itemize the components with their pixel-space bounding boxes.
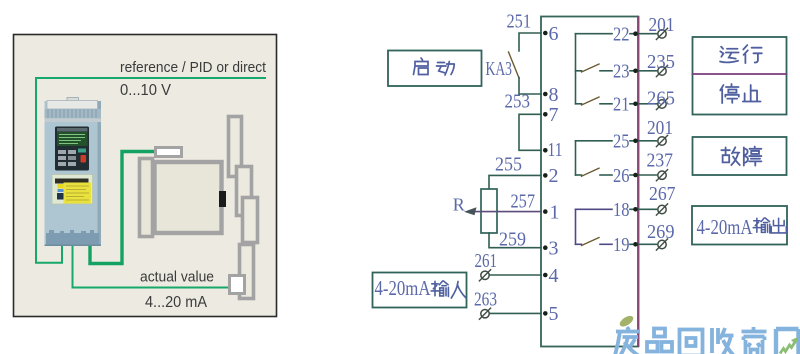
wiper arrowhead [464,207,477,215]
char chu (exit) [771,218,786,233]
char ting (stop-1) [720,84,739,103]
terminal circle 235 [656,65,667,76]
wire: 259 potentiometer bottom to terminal 3 [489,233,541,248]
drive: label icons [58,184,65,189]
wire: 255 terminal 2 to potentiometer top [489,175,541,189]
svg-text:8: 8 [549,84,559,106]
svg-text:237: 237 [647,150,674,172]
box: 4-20mA output [692,206,787,245]
svg-text:261: 261 [475,250,498,272]
pipe segment 4 [240,245,254,299]
contact 21 to terminal circle 265 [630,103,657,105]
wire: 257 wiper to terminal 1 [469,211,541,213]
terminal circle 267 [656,204,667,215]
wire number labels right [647,14,676,243]
terminal circle 269 [656,239,667,250]
svg-text:201: 201 [647,117,673,139]
svg-text:6: 6 [549,23,559,45]
char dong (move) [437,62,455,76]
wire: loop terminal 7 to 11 [519,114,541,150]
drive: fin band [45,109,102,118]
svg-text:25: 25 [613,131,630,153]
svg-text:22: 22 [613,24,630,46]
svg-text:251: 251 [507,11,532,33]
svg-text:2: 2 [549,165,559,187]
char yun (run) [720,47,739,63]
contact 21 switch [576,103,582,105]
svg-text:reference / PID or direct: reference / PID or direct [120,59,267,76]
potentiometer R body [481,189,497,233]
pipe segment 3 [243,198,258,243]
box: fault [693,137,787,175]
drive: control panel [55,127,89,171]
wire: 251 from start switch to terminal 6 [519,33,541,51]
char xing (go) [743,45,762,63]
pump: top connector [156,148,182,157]
wire: 261 to terminal 4 [490,274,541,276]
svg-text:23: 23 [613,61,630,83]
run/stop divider [693,73,787,75]
wire: 263 to terminal 5 [490,312,541,314]
drive: keypad buttons [58,150,66,154]
char ru (enter) [451,282,466,299]
drive: seam [45,118,102,122]
terminal circle 237 [656,170,667,181]
svg-text:263: 263 [474,289,497,311]
svg-text:265: 265 [647,88,675,110]
box: run/stop [693,37,787,115]
svg-text:26: 26 [613,165,630,187]
relay bracket group 2 [575,141,577,175]
wm char shang [742,327,767,354]
svg-text:7: 7 [549,104,559,126]
contact 22 to terminal circle 201 [630,33,657,35]
char qi (start) [414,58,429,75]
pump: main body [155,162,222,233]
contact 25 wire [576,140,613,142]
svg-text:3: 3 [549,238,559,260]
contact 23 switch [576,70,582,72]
svg-text:18: 18 [613,199,630,221]
svg-text:4...20 mA: 4...20 mA [145,294,208,311]
drive: label barcode [55,179,89,184]
drive: green display [57,132,88,146]
relay bracket group 1 [575,34,577,104]
WATERMARK [615,314,799,354]
drive: right shade [98,101,102,246]
svg-text:11: 11 [548,139,563,161]
contact 18 wire [576,208,613,210]
char gu (fault-1) [721,147,739,165]
wire: reference signal green loop [36,78,266,263]
svg-text:1: 1 [550,201,560,223]
box: 4-20mA input [373,273,467,308]
wm char hui [680,330,703,354]
wm char shou [712,328,735,354]
sensor box [230,276,245,294]
switch KA3 blade [509,52,520,78]
terminal circle 201a [656,28,667,39]
contact 22 wire [576,33,613,35]
wm char fei [615,327,641,354]
wire: 253 from switch to terminal 8 [519,78,541,95]
terminal numbers left bus [548,23,563,325]
svg-text:235: 235 [647,51,675,73]
panel frame [14,35,277,317]
svg-text:21: 21 [613,94,630,116]
svg-text:201: 201 [649,14,675,36]
svg-text:0...10 V: 0...10 V [120,82,172,99]
junction dots right bus [633,31,638,246]
svg-text:KA3: KA3 [486,58,513,80]
char shu (output box) [753,218,770,233]
svg-text:4-20mA: 4-20mA [375,276,432,300]
drive: bottom heatsink silhouette [46,233,99,246]
terminal circle 265 [656,98,667,109]
wire number labels left [474,11,535,311]
RIGHT-SCHEMATIC [373,11,788,347]
drive: warning label plate [52,175,93,205]
relay bracket group 3 [575,209,577,244]
wire: motor cable thick green [90,152,156,264]
box: start (qidong) [388,51,482,87]
drive: red stop button [81,155,87,163]
drive: panel top strip [57,128,88,132]
char zhang (fault-2) [744,147,762,166]
svg-text:4: 4 [549,265,559,287]
terminal circle 263 [479,308,490,319]
char shu (input box) [431,281,448,296]
char zhi (stop-2) [743,85,761,101]
drive: top cap [47,101,98,110]
svg-text:5: 5 [549,303,559,325]
svg-text:267: 267 [649,183,676,205]
svg-text:257: 257 [511,191,536,213]
terminal circle 261 [479,270,490,281]
pipe segment 2 [237,167,252,216]
VFD terminal block outline [541,17,638,347]
leaf decoration [618,314,635,329]
logo green arrow [780,340,797,354]
contact 26 switch [576,174,582,176]
terminal circle 201b [656,135,667,146]
svg-text:269: 269 [647,221,675,243]
LEFT-PANEL [14,35,277,317]
pump: left flange [140,159,153,237]
right edge accent [638,17,640,347]
wm char pin [647,329,672,352]
wm logo square [776,329,799,354]
contact numbers [613,24,630,257]
svg-text:255: 255 [495,154,522,176]
drive: top tab [67,98,79,102]
pipe segment 1 [229,117,242,177]
svg-text:4-20mA: 4-20mA [697,215,754,239]
wire: actual value green [73,246,231,288]
contact 19 switch [576,243,582,245]
drive: bottom edge [45,245,102,247]
drive: yellow label [64,183,92,204]
svg-text:259: 259 [499,229,526,251]
junction dots left bus [543,31,548,316]
valve black nub [219,191,226,207]
svg-text:19: 19 [613,234,630,256]
svg-text:R: R [453,195,465,215]
drive: body [45,101,102,246]
contact 23 to terminal circle 235 [630,70,657,72]
svg-text:actual value: actual value [140,269,214,286]
svg-text:253: 253 [505,91,531,113]
